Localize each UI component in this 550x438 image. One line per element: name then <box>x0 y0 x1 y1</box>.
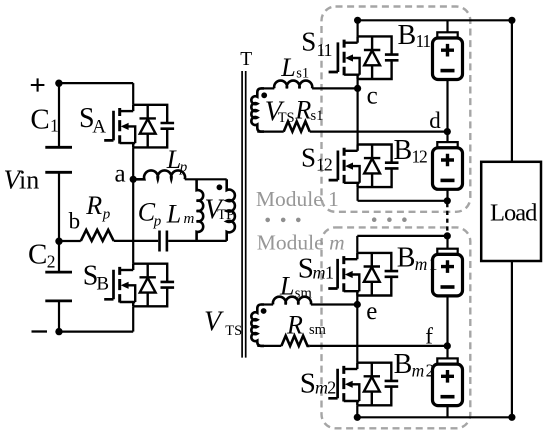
svg-text:s1: s1 <box>311 108 324 124</box>
svg-text:2: 2 <box>47 252 56 272</box>
svg-text:L: L <box>166 200 181 229</box>
svg-text:C: C <box>28 238 47 270</box>
svg-text:B: B <box>398 20 417 51</box>
svg-text:e: e <box>366 298 377 325</box>
svg-text:in: in <box>19 165 39 194</box>
svg-text:L: L <box>279 272 294 301</box>
svg-text:A: A <box>92 116 106 137</box>
svg-text:S: S <box>301 27 316 57</box>
svg-text:p: p <box>153 213 162 229</box>
svg-text:a: a <box>115 160 126 187</box>
svg-text:m: m <box>184 211 195 227</box>
svg-text:f: f <box>425 324 433 349</box>
svg-text:b: b <box>69 209 81 234</box>
svg-text:2: 2 <box>327 378 336 398</box>
svg-text:TS: TS <box>278 110 295 126</box>
svg-text:Module m: Module m <box>257 230 345 254</box>
svg-text:11: 11 <box>316 40 331 60</box>
svg-text:11: 11 <box>416 31 431 51</box>
svg-text:m: m <box>415 254 428 274</box>
svg-text:p: p <box>102 206 111 222</box>
svg-text:m: m <box>315 378 328 398</box>
svg-text:B: B <box>394 349 413 380</box>
svg-text:c: c <box>367 83 378 110</box>
svg-text:C: C <box>30 103 49 135</box>
svg-text:S: S <box>301 142 316 172</box>
svg-text:1: 1 <box>429 254 438 274</box>
svg-text:TP: TP <box>217 207 234 223</box>
svg-text:T: T <box>240 49 252 70</box>
svg-text:Load: Load <box>490 200 537 227</box>
svg-text:TS: TS <box>225 323 242 339</box>
svg-text:1: 1 <box>50 116 59 136</box>
svg-text:1: 1 <box>325 262 334 282</box>
svg-text:12: 12 <box>316 155 332 175</box>
svg-text:sm: sm <box>309 322 327 338</box>
svg-text:R: R <box>85 191 102 220</box>
svg-text:2: 2 <box>426 361 435 381</box>
svg-text:S: S <box>300 367 316 399</box>
svg-text:12: 12 <box>412 147 428 167</box>
svg-text:R: R <box>294 96 311 125</box>
svg-text:L: L <box>280 53 295 82</box>
svg-text:s1: s1 <box>296 66 309 82</box>
svg-text:m: m <box>412 361 425 381</box>
svg-text:m: m <box>313 262 326 282</box>
svg-text:Module 1: Module 1 <box>256 187 339 211</box>
svg-text:B: B <box>397 243 416 274</box>
svg-text:R: R <box>286 311 303 340</box>
svg-text:B: B <box>96 273 109 294</box>
svg-text:d: d <box>429 108 441 133</box>
svg-text:p: p <box>179 160 188 176</box>
svg-text:sm: sm <box>295 286 313 302</box>
svg-text:V: V <box>204 306 224 337</box>
svg-text:B: B <box>394 135 413 166</box>
